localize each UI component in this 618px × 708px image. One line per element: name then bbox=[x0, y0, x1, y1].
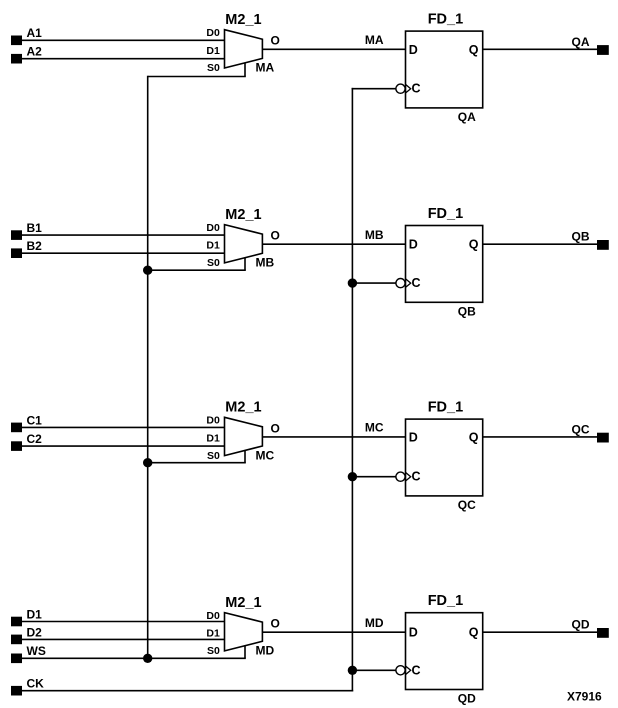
clock bubble FF row D bbox=[396, 666, 405, 675]
svg-text:MC: MC bbox=[365, 421, 384, 435]
wire clock branch row B bbox=[352, 282, 396, 284]
svg-text:S0: S0 bbox=[207, 62, 220, 74]
svg-text:C: C bbox=[412, 470, 421, 484]
output pad QB bbox=[597, 240, 609, 250]
input pad D2 bbox=[11, 625, 42, 644]
svg-text:D: D bbox=[409, 43, 418, 57]
wire FF Q to output QB bbox=[483, 230, 597, 245]
svg-text:FD_1: FD_1 bbox=[428, 400, 463, 416]
svg-text:FD_1: FD_1 bbox=[428, 12, 463, 28]
wire A1 to mux D0 bbox=[22, 39, 225, 41]
svg-text:D: D bbox=[409, 626, 418, 640]
svg-text:S0: S0 bbox=[207, 257, 220, 269]
svg-text:D1: D1 bbox=[206, 432, 220, 444]
junction WS / S0 bus bbox=[143, 654, 152, 663]
svg-text:C2: C2 bbox=[27, 432, 43, 446]
input pad C1 bbox=[11, 413, 42, 432]
svg-text:D1: D1 bbox=[27, 607, 43, 621]
svg-text:QB: QB bbox=[458, 304, 476, 318]
svg-text:CK: CK bbox=[27, 677, 45, 691]
wire FF Q to output QD bbox=[483, 618, 597, 633]
wire clock bus vertical bbox=[351, 88, 353, 692]
svg-text:C: C bbox=[412, 663, 421, 677]
wire clock branch row D bbox=[352, 669, 396, 671]
svg-text:O: O bbox=[271, 421, 280, 435]
svg-text:QB: QB bbox=[572, 230, 590, 244]
svg-text:Q: Q bbox=[469, 238, 479, 252]
input pad CK bbox=[11, 677, 44, 696]
clock edge triangle FF row D bbox=[406, 666, 411, 675]
wire S0 stub row B bbox=[244, 258, 246, 271]
wire S0 stub row D bbox=[244, 646, 246, 659]
junction clock bus row B bbox=[348, 278, 357, 287]
svg-text:MA: MA bbox=[365, 33, 384, 47]
clock bubble FF row A bbox=[396, 84, 405, 93]
svg-text:D0: D0 bbox=[206, 222, 220, 234]
svg-text:C: C bbox=[412, 276, 421, 290]
svg-text:A2: A2 bbox=[27, 45, 43, 59]
wire clock branch row C bbox=[352, 476, 396, 478]
flip-flop FD_1 row C bbox=[406, 400, 483, 512]
wire S0 select bus vertical bbox=[147, 76, 149, 659]
svg-text:O: O bbox=[271, 34, 280, 48]
clock edge triangle FF row B bbox=[406, 279, 411, 288]
svg-text:MA: MA bbox=[256, 61, 275, 75]
flip-flop FD_1 row D bbox=[406, 593, 483, 705]
wire D2 to mux D1 bbox=[22, 638, 225, 640]
clock edge triangle FF row A bbox=[406, 84, 411, 93]
wire net MB mux O to FF D bbox=[262, 228, 405, 244]
wire S0 stub row A bbox=[244, 63, 246, 77]
junction clock bus row C bbox=[348, 472, 357, 481]
svg-text:M2_1: M2_1 bbox=[225, 400, 261, 416]
input pad WS bbox=[11, 644, 46, 663]
svg-text:D2: D2 bbox=[27, 625, 43, 639]
mux M2_1 row D bbox=[206, 595, 279, 658]
svg-text:QC: QC bbox=[458, 498, 476, 512]
svg-text:C1: C1 bbox=[27, 413, 43, 427]
wire S0 branch row A bbox=[148, 76, 246, 78]
svg-text:B1: B1 bbox=[27, 221, 43, 235]
junction clock bus row D bbox=[348, 666, 357, 675]
flip-flop FD_1 row B bbox=[406, 206, 483, 318]
wire B2 to mux D1 bbox=[22, 252, 225, 254]
wire net MC mux O to FF D bbox=[262, 421, 405, 437]
svg-text:S0: S0 bbox=[207, 450, 220, 462]
junction S0 bus row C bbox=[143, 458, 152, 467]
wire clock branch row A bbox=[352, 88, 396, 90]
svg-text:MB: MB bbox=[365, 228, 384, 242]
mux M2_1 row B bbox=[206, 207, 279, 270]
svg-text:D1: D1 bbox=[206, 628, 220, 640]
flip-flop FD_1 row A bbox=[406, 12, 483, 124]
svg-text:D1: D1 bbox=[206, 240, 220, 252]
svg-text:QC: QC bbox=[572, 422, 590, 436]
svg-text:FD_1: FD_1 bbox=[428, 593, 463, 609]
clock bubble FF row C bbox=[396, 472, 405, 481]
svg-text:D: D bbox=[409, 430, 418, 444]
svg-text:A1: A1 bbox=[27, 26, 43, 40]
svg-text:Q: Q bbox=[469, 430, 479, 444]
output pad QA bbox=[597, 45, 609, 55]
svg-text:MD: MD bbox=[365, 616, 384, 630]
svg-text:O: O bbox=[271, 617, 280, 631]
wire net MD mux O to FF D bbox=[262, 616, 405, 632]
svg-text:MB: MB bbox=[256, 256, 275, 270]
svg-text:D0: D0 bbox=[206, 27, 220, 39]
wire B1 to mux D0 bbox=[22, 234, 225, 236]
svg-text:FD_1: FD_1 bbox=[428, 206, 463, 222]
input pad C2 bbox=[11, 432, 42, 451]
wire C2 to mux D1 bbox=[22, 445, 225, 447]
svg-text:WS: WS bbox=[27, 644, 46, 658]
svg-text:QA: QA bbox=[458, 110, 476, 124]
input pad B1 bbox=[11, 221, 42, 240]
wire S0 stub row C bbox=[244, 450, 246, 462]
svg-text:D: D bbox=[409, 238, 418, 252]
svg-text:M2_1: M2_1 bbox=[225, 207, 261, 223]
wire A2 to mux D1 bbox=[22, 58, 225, 60]
input pad B2 bbox=[11, 239, 42, 258]
svg-text:QA: QA bbox=[572, 35, 590, 49]
svg-text:X7916: X7916 bbox=[567, 689, 602, 703]
svg-text:D0: D0 bbox=[206, 610, 220, 622]
svg-text:MC: MC bbox=[256, 448, 275, 462]
mux M2_1 row A bbox=[206, 12, 279, 75]
wire WS to mux S0 bbox=[22, 657, 246, 659]
input pad A2 bbox=[11, 45, 42, 64]
wire S0 branch row C bbox=[148, 462, 246, 464]
svg-text:MD: MD bbox=[256, 644, 275, 658]
wire D1 to mux D0 bbox=[22, 621, 225, 623]
wire S0 branch row B bbox=[148, 269, 246, 271]
wire CK to clock bus bbox=[22, 690, 353, 692]
svg-text:Q: Q bbox=[469, 626, 479, 640]
svg-text:M2_1: M2_1 bbox=[225, 595, 261, 611]
output pad QC bbox=[597, 433, 609, 443]
wire FF Q to output QA bbox=[483, 35, 597, 50]
junction S0 bus row B bbox=[143, 266, 152, 275]
svg-text:D1: D1 bbox=[206, 45, 220, 57]
svg-text:QD: QD bbox=[572, 618, 590, 632]
wire net MA mux O to FF D bbox=[262, 33, 405, 49]
svg-text:D0: D0 bbox=[206, 415, 220, 427]
wire FF Q to output QC bbox=[483, 422, 597, 437]
clock edge triangle FF row C bbox=[406, 472, 411, 481]
clock bubble FF row B bbox=[396, 279, 405, 288]
wire C1 to mux D0 bbox=[22, 426, 225, 428]
svg-text:S0: S0 bbox=[207, 645, 220, 657]
svg-text:O: O bbox=[271, 229, 280, 243]
input pad A1 bbox=[11, 26, 42, 45]
svg-text:Q: Q bbox=[469, 43, 479, 57]
svg-text:C: C bbox=[412, 82, 421, 96]
input pad D1 bbox=[11, 607, 42, 626]
svg-text:B2: B2 bbox=[27, 239, 43, 253]
svg-text:QD: QD bbox=[458, 692, 476, 706]
mux M2_1 row C bbox=[206, 400, 279, 463]
svg-text:M2_1: M2_1 bbox=[225, 12, 261, 28]
output pad QD bbox=[597, 628, 609, 638]
